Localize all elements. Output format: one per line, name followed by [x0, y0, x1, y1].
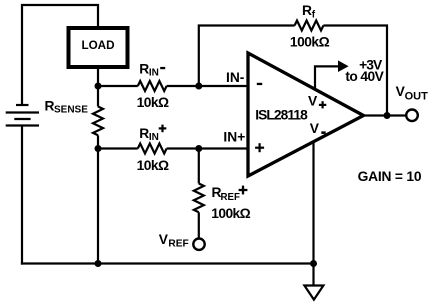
VOUT label — [396, 84, 429, 103]
resistor RSENSE (vertical zigzag) — [93, 86, 103, 149]
node G junction (V- / rail / ground) — [310, 260, 317, 267]
wire Rf to output node — [323, 26, 387, 116]
RIN- label — [139, 62, 165, 79]
wire node B down to bottom rail — [97, 149, 99, 264]
svg-text:LOAD: LOAD — [81, 39, 114, 52]
resistor RREF+ (vertical zigzag) with wires — [194, 149, 204, 239]
svg-text:OUT: OUT — [405, 91, 429, 103]
resistor RIN- (horizontal) with wires — [98, 81, 249, 91]
svg-text:10kΩ: 10kΩ — [137, 95, 169, 110]
node E output junction — [384, 112, 391, 119]
wire LOAD bottom to node A — [97, 67, 99, 86]
svg-text:IN: IN — [149, 132, 159, 143]
svg-text:ISL28118: ISL28118 — [255, 107, 308, 122]
RSENSE label — [45, 98, 89, 115]
svg-text:SENSE: SENSE — [54, 104, 88, 115]
RREF+ label — [212, 185, 248, 203]
op-amp U1 ISL28118 triangle — [248, 53, 364, 176]
resistor RIN+ (horizontal) with wires — [98, 144, 249, 154]
node F junction (RSENSE branch / rail) — [95, 260, 102, 267]
node C junction (IN- / feedback) — [195, 83, 202, 90]
terminal VOUT (open circle) — [406, 110, 418, 122]
svg-text:V: V — [310, 121, 320, 136]
svg-text:IN: IN — [149, 67, 159, 78]
+3V to 40V label — [345, 57, 384, 84]
svg-text:REF: REF — [168, 238, 188, 249]
svg-text:100kΩ: 100kΩ — [290, 35, 330, 50]
RIN+ label — [139, 125, 166, 143]
bottom ground rail — [21, 262, 314, 264]
VREF label — [159, 232, 189, 249]
wire V- drop to bottom rail — [312, 142, 314, 264]
op-amp minus input sign — [257, 83, 262, 85]
op-amp V- pin label — [310, 121, 326, 136]
svg-text:V: V — [308, 94, 318, 109]
svg-text:V: V — [159, 232, 169, 247]
wire battery bottom to ground rail — [21, 126, 23, 265]
svg-text:to 40V: to 40V — [345, 69, 384, 84]
svg-text:R: R — [302, 3, 312, 18]
node D junction (IN+ / RREF) — [195, 145, 202, 152]
resistor Rf (horizontal zigzag) — [295, 21, 324, 31]
V+ supply arrow — [315, 60, 349, 88]
svg-text:GAIN = 10: GAIN = 10 — [358, 169, 422, 184]
svg-text:100kΩ: 100kΩ — [211, 206, 250, 221]
svg-text:R: R — [45, 98, 55, 113]
svg-text:IN-: IN- — [226, 70, 245, 85]
terminal VREF (open circle) — [193, 239, 204, 250]
svg-text:10kΩ: 10kΩ — [137, 158, 169, 173]
ground symbol — [304, 264, 323, 300]
svg-text:R: R — [139, 126, 149, 141]
svg-text:R: R — [139, 62, 149, 77]
LOAD box — [69, 28, 128, 67]
battery V1 — [6, 105, 39, 126]
svg-text:IN+: IN+ — [223, 130, 245, 145]
wire op-amp output to VOUT terminal — [364, 114, 407, 116]
op-amp plus input sign — [255, 143, 264, 152]
op-amp V+ pin label — [308, 94, 326, 109]
node A junction (load / RIN- / RSENSE) — [95, 83, 102, 90]
Rf label — [302, 3, 316, 20]
wire feedback riser and top rail to Rf — [199, 26, 295, 87]
svg-text:REF: REF — [221, 192, 240, 203]
node B junction (RSENSE bottom / RIN+) — [95, 145, 102, 152]
wire top-left loop from battery to LOAD — [22, 5, 98, 106]
